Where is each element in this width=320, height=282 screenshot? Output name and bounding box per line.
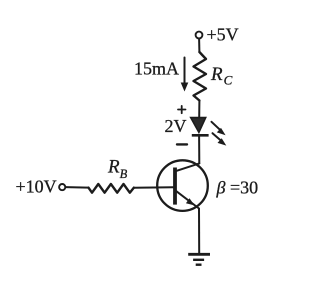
wire collector [198, 135, 200, 163]
resistor RC [194, 52, 207, 101]
terminal +10V [59, 184, 65, 190]
current arrow 15mA [181, 58, 189, 92]
light arrow [212, 122, 226, 135]
plus sign [178, 106, 186, 113]
svg-text:RC: RC [210, 64, 233, 88]
transistor Q1 [157, 160, 208, 211]
resistor RB [89, 184, 134, 193]
svg-text:β =30: β =30 [216, 178, 259, 198]
wire collector diagonal [176, 163, 200, 171]
wire base right [134, 186, 174, 189]
LED D1 [191, 118, 209, 136]
svg-text:RB: RB [107, 157, 128, 181]
emitter with arrow [176, 191, 200, 209]
svg-text:2V: 2V [165, 116, 187, 136]
wire [198, 39, 200, 52]
svg-text:15mA: 15mA [134, 59, 179, 79]
terminal +5V [196, 32, 203, 39]
wire base left [66, 186, 88, 189]
ground [188, 254, 210, 264]
wire emitter to ground [198, 209, 200, 254]
light arrow [213, 133, 227, 145]
svg-text:+10V: +10V [16, 176, 57, 196]
wire [198, 101, 200, 118]
minus sign [177, 143, 187, 145]
svg-text:+5V: +5V [207, 24, 239, 44]
